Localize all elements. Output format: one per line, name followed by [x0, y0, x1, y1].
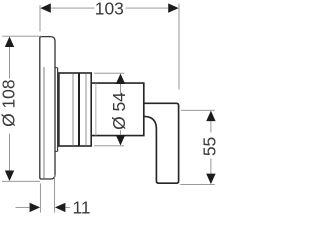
collar bottom edge	[55, 150, 58, 152]
dim 55: bottom extension line	[180, 183, 215, 185]
dim 11: right arrow	[55, 203, 66, 212]
dim 11: right extension line	[54, 175, 56, 213]
dim O108: top arrow	[5, 37, 14, 48]
dim 103: line segments	[51, 7, 95, 9]
svg-text:103: 103	[95, 0, 124, 19]
dim 55: top arrow	[206, 111, 215, 122]
plate face contour line	[43, 67, 45, 178]
dim O108: line segments	[9, 47, 11, 79]
dim O54: top extension line	[94, 72, 124, 74]
dim 103: right arrow	[168, 3, 179, 12]
dim O108: top extension line	[2, 35, 42, 37]
sleeve joint line 1	[72, 73, 74, 145]
svg-text:55: 55	[200, 137, 220, 156]
dim O108: bottom extension line	[2, 180, 40, 182]
dim 103: left extension line	[39, 5, 41, 31]
sleeve body	[59, 73, 91, 146]
dim 103: right extension line	[178, 4, 180, 90]
dim O54: top arrow	[116, 74, 125, 85]
collar top edge	[55, 67, 58, 69]
wall escutcheon plate (side view)	[40, 37, 55, 179]
dim O54: line segments	[120, 84, 122, 95]
dim O54: bottom arrow	[116, 135, 125, 146]
svg-text:11: 11	[72, 198, 90, 218]
handle hub	[91, 83, 144, 136]
svg-text:Ø 108: Ø 108	[0, 80, 19, 127]
dim 55: top extension line	[181, 109, 215, 111]
dim 11: left arrow	[30, 203, 40, 212]
dim 55: line segments	[210, 121, 212, 132]
dim O108: bottom arrow	[5, 171, 14, 182]
collar ring front face	[57, 68, 59, 152]
svg-text:Ø 54: Ø 54	[109, 92, 129, 130]
dim 55: bottom arrow	[206, 174, 215, 185]
dim O54: bottom extension line	[94, 145, 124, 147]
dim 11: left extension line	[39, 184, 41, 213]
lever arm and grip	[144, 103, 179, 183]
sleeve thick joint line	[78, 73, 80, 146]
hub joint line	[95, 83, 97, 136]
dim 11: tail lines	[16, 206, 30, 208]
sleeve joint line 2	[85, 73, 87, 145]
dim 103: left arrow	[40, 3, 51, 12]
